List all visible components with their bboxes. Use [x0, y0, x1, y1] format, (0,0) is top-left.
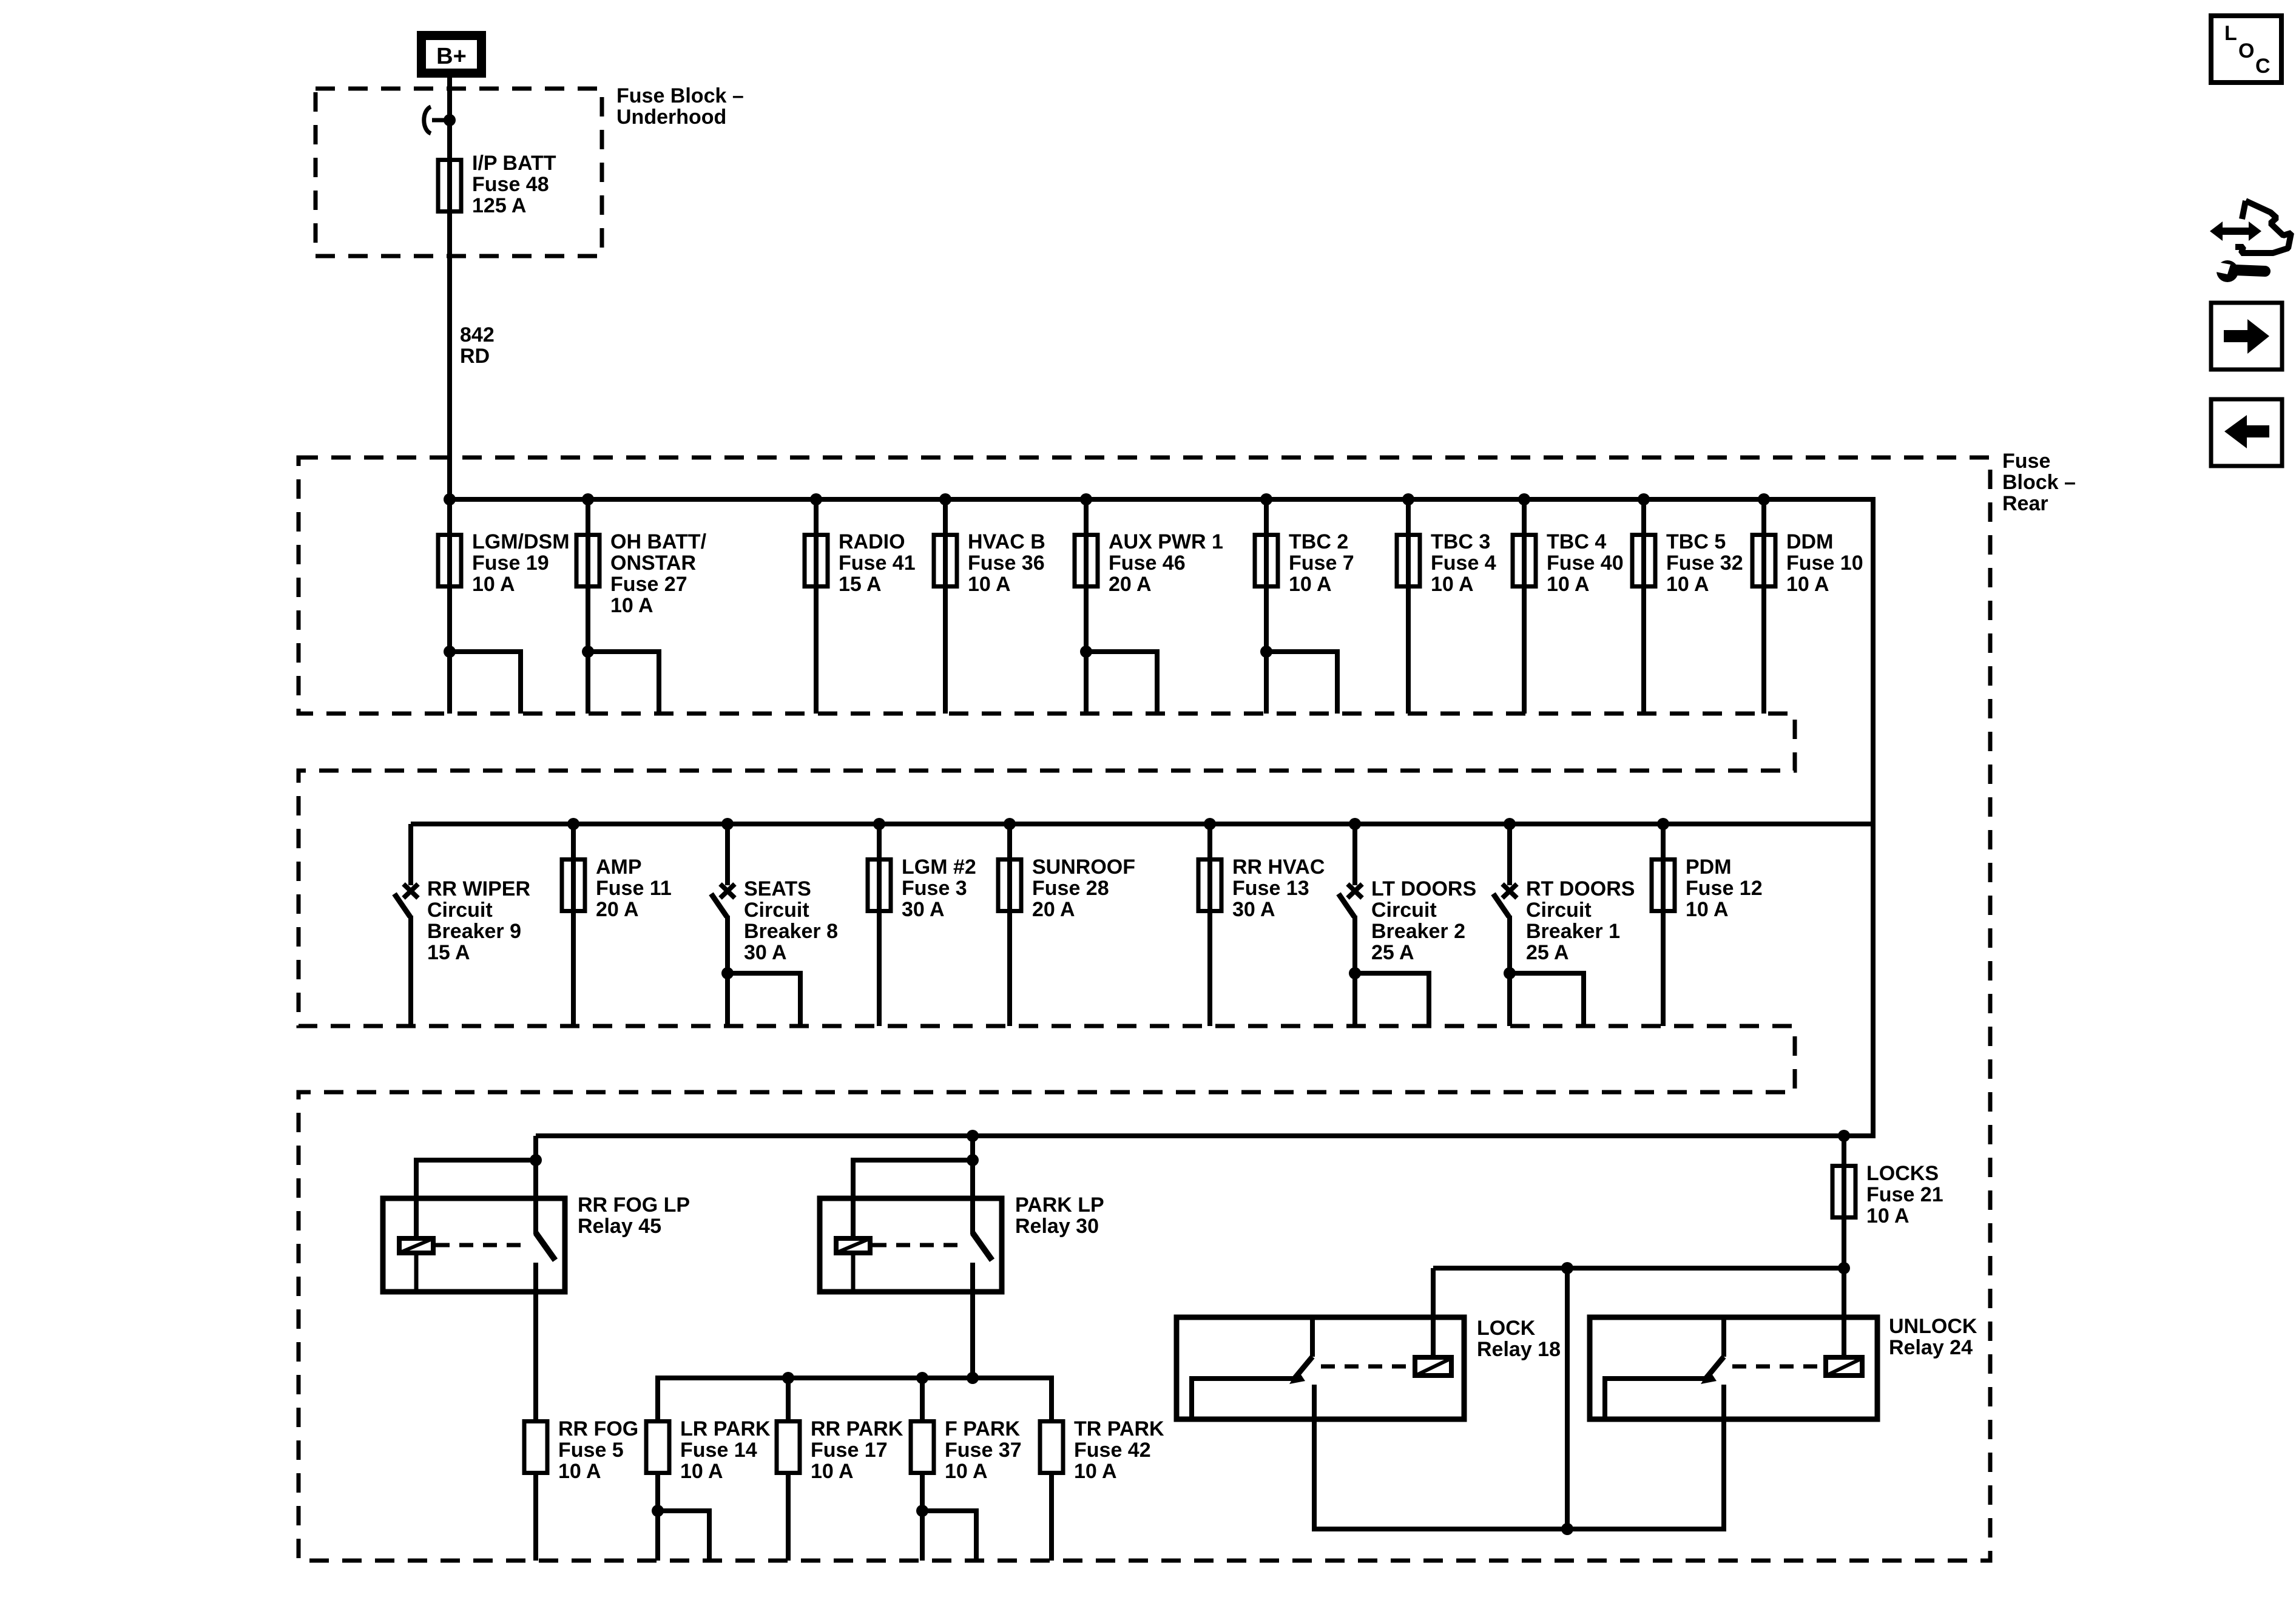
svg-text:Fuse: Fuse: [2002, 450, 2050, 473]
relay RR FOG LP: coil-switch dashed link: [436, 1243, 528, 1247]
park lamp distribution wire: [658, 1378, 1052, 1419]
fuse TR PARK: wire: [1049, 1475, 1054, 1561]
relay RR FOG LP: switch feed wire: [533, 1160, 538, 1234]
fuse HVAC B (Fuse 36 10 A): [934, 535, 957, 587]
junction RR PARK feed: [782, 1372, 794, 1384]
fuse AMP (Fuse 11 20 A): [562, 860, 585, 911]
fuse LGM/DSM: output branch junction: [444, 646, 456, 658]
fuse LR PARK (Fuse 14 10 A): [646, 1422, 669, 1473]
svg-text:RADIO: RADIO: [839, 530, 905, 553]
svg-text:Fuse 27: Fuse 27: [610, 573, 687, 596]
svg-text:L: L: [2224, 22, 2237, 45]
svg-text:Relay 45: Relay 45: [578, 1215, 661, 1238]
fuse LGM/DSM: output branch wire: [450, 652, 521, 714]
fuse AUX PWR 1: wire: [1084, 499, 1089, 714]
relay UNLOCK: coil-switch dashed link: [1732, 1365, 1821, 1369]
svg-text:10 A: 10 A: [1289, 573, 1332, 596]
svg-text:10 A: 10 A: [1547, 573, 1590, 596]
fuse LR PARK: wire: [655, 1475, 660, 1561]
circuit breaker RT DOORS: junction on bus: [1504, 818, 1516, 830]
circuit breaker RT DOORS: output wire: [1507, 916, 1512, 1026]
fuse RADIO: wire: [814, 499, 819, 714]
svg-text:20 A: 20 A: [1109, 573, 1152, 596]
lock relay outputs link wire: [1314, 1385, 1724, 1529]
fuse RADIO (Fuse 41 15 A): [805, 535, 828, 587]
svg-text:RT DOORS: RT DOORS: [1526, 877, 1635, 900]
wire bus down to RR FOG LP relay: [533, 1136, 538, 1160]
svg-text:Fuse 21: Fuse 21: [1866, 1183, 1943, 1206]
relay LOCK: switch fixed contact: [1310, 1317, 1315, 1357]
svg-text:RR WIPER: RR WIPER: [427, 877, 530, 900]
svg-text:Underhood: Underhood: [616, 106, 726, 129]
fuse TBC 2: output branch junction: [1260, 646, 1272, 658]
svg-text:Fuse 13: Fuse 13: [1232, 877, 1309, 900]
circuit breaker SEATS: junction on bus: [721, 818, 734, 830]
svg-text:Fuse 10: Fuse 10: [1786, 552, 1863, 575]
fuse OH BATT/: wire: [586, 499, 590, 714]
svg-text:B+: B+: [436, 44, 467, 69]
lock relays coil feed wire: [1433, 1266, 1844, 1271]
wire to LOCK relay coil: [1431, 1268, 1436, 1355]
fuse F PARK: wire: [920, 1475, 925, 1561]
svg-text:TBC 2: TBC 2: [1289, 530, 1348, 553]
relay UNLOCK: switch fixed contact: [1721, 1317, 1726, 1357]
fuse LGM #2 (Fuse 3 30 A): [868, 860, 891, 911]
svg-text:SEATS: SEATS: [744, 877, 811, 900]
svg-text:Fuse 46: Fuse 46: [1109, 552, 1186, 575]
fuse LOCKS: wire: [1842, 1136, 1846, 1268]
svg-text:I/P BATT: I/P BATT: [472, 152, 556, 175]
junction LOCKS output: [1838, 1262, 1850, 1274]
relay feed bus wire: [536, 1133, 1844, 1138]
fuse LGM/DSM: junction on bus: [444, 493, 456, 505]
svg-text:10 A: 10 A: [1431, 573, 1474, 596]
svg-text:Fuse 42: Fuse 42: [1074, 1439, 1151, 1462]
circuit breaker LT DOORS: output wire: [1352, 916, 1357, 1026]
center link wire: [1565, 1268, 1570, 1529]
circuit breaker LT DOORS: output branch junction: [1349, 967, 1361, 979]
junction LOCKS fuse feed: [1838, 1130, 1850, 1142]
svg-text:20 A: 20 A: [1032, 898, 1075, 921]
svg-text:F PARK: F PARK: [945, 1417, 1020, 1440]
fuse OH BATT/: output branch wire: [588, 652, 659, 714]
svg-text:HVAC B: HVAC B: [968, 530, 1045, 553]
svg-text:RR PARK: RR PARK: [811, 1417, 903, 1440]
fuse PDM: junction on bus: [1657, 818, 1669, 830]
svg-text:Circuit: Circuit: [744, 899, 809, 922]
fuse TBC 3: junction on bus: [1402, 493, 1414, 505]
svg-text:10 A: 10 A: [1786, 573, 1829, 596]
fuse RR HVAC: junction on bus: [1204, 818, 1216, 830]
circuit breaker LT DOORS: junction on bus: [1349, 818, 1361, 830]
circuit breaker LT DOORS blade: [1339, 894, 1354, 917]
svg-text:Breaker 1: Breaker 1: [1526, 920, 1620, 943]
svg-text:20 A: 20 A: [596, 898, 639, 921]
circuit breaker SEATS: output branch wire: [728, 973, 800, 1026]
svg-text:Fuse 12: Fuse 12: [1686, 877, 1763, 900]
circuit breaker RT DOORS: output branch wire: [1510, 973, 1584, 1026]
svg-text:RD: RD: [460, 345, 490, 368]
svg-text:RR FOG LP: RR FOG LP: [578, 1193, 690, 1217]
junction at connector: [444, 114, 456, 126]
circuit breaker SEATS: output wire: [725, 916, 730, 1026]
svg-text:15 A: 15 A: [427, 941, 470, 964]
junction PARK LP relay output: [967, 1372, 979, 1384]
svg-text:Breaker 2: Breaker 2: [1371, 920, 1465, 943]
svg-text:25 A: 25 A: [1526, 941, 1569, 964]
svg-text:Block –: Block –: [2002, 471, 2076, 494]
relay UNLOCK switch blade: [1706, 1357, 1724, 1378]
svg-text:10 A: 10 A: [1866, 1204, 1909, 1227]
fuse TBC 2: wire: [1264, 499, 1269, 714]
svg-text:Fuse 28: Fuse 28: [1032, 877, 1109, 900]
wire bus down to PARK LP relay: [970, 1136, 975, 1160]
svg-text:Relay 24: Relay 24: [1889, 1336, 1973, 1359]
svg-text:10 A: 10 A: [1686, 898, 1729, 921]
svg-text:10 A: 10 A: [945, 1460, 988, 1483]
svg-text:10 A: 10 A: [558, 1460, 601, 1483]
fuse AUX PWR 1 (Fuse 46 20 A): [1075, 535, 1098, 587]
circuit breaker SEATS blade: [711, 894, 727, 917]
relay RR FOG LP: coil branch junction: [530, 1154, 542, 1166]
fuse block underhood dashed box: [316, 89, 602, 256]
relay LOCK: coil-switch dashed link: [1321, 1365, 1410, 1369]
svg-text:Fuse 4: Fuse 4: [1431, 552, 1496, 575]
fuse RR FOG (Fuse 5 10 A): [524, 1422, 547, 1473]
svg-text:Fuse 7: Fuse 7: [1289, 552, 1354, 575]
fuse DDM: junction on bus: [1758, 493, 1770, 505]
service icon wrench: [2217, 260, 2238, 282]
relay PARK LP: coil branch wire: [853, 1160, 973, 1236]
svg-text:25 A: 25 A: [1371, 941, 1414, 964]
svg-text:Fuse 36: Fuse 36: [968, 552, 1045, 575]
relay PARK LP: switch output wire: [970, 1263, 975, 1292]
svg-text:Relay 18: Relay 18: [1477, 1338, 1561, 1361]
svg-text:AUX PWR 1: AUX PWR 1: [1109, 530, 1223, 553]
svg-text:LT DOORS: LT DOORS: [1371, 877, 1476, 900]
svg-text:RR HVAC: RR HVAC: [1232, 856, 1325, 879]
circuit breaker SEATS: feed wire: [725, 824, 730, 885]
forward arrow box: [2211, 303, 2282, 370]
relay RR FOG LP switch blade: [536, 1233, 555, 1260]
circuit breaker LT DOORS contact X: [1348, 884, 1362, 898]
svg-text:LR PARK: LR PARK: [680, 1417, 771, 1440]
back arrow: [2224, 415, 2269, 448]
fuse RR PARK (Fuse 17 10 A): [777, 1422, 800, 1473]
svg-text:10 A: 10 A: [680, 1460, 723, 1483]
svg-text:30 A: 30 A: [1232, 898, 1275, 921]
fuse TBC 3: wire: [1406, 499, 1411, 714]
wire PARK LP relay to park lamp feed line: [970, 1292, 975, 1378]
fuse RR PARK: wire: [786, 1475, 791, 1561]
circuit breaker RT DOORS contact X: [1502, 884, 1517, 898]
svg-text:10 A: 10 A: [1074, 1460, 1117, 1483]
svg-text:Fuse 41: Fuse 41: [839, 552, 916, 575]
relay UNLOCK blade arrow: [1701, 1370, 1717, 1384]
connector at I/P BATT fuse input: [424, 107, 431, 133]
fuse RR FOG: wire: [533, 1475, 538, 1561]
relay LOCK: common wire: [1192, 1379, 1302, 1419]
relay PARK LP: switch feed wire: [970, 1160, 975, 1234]
fuse DDM: wire: [1761, 499, 1766, 714]
relay LOCK switch blade: [1295, 1357, 1312, 1378]
svg-text:Fuse 14: Fuse 14: [680, 1439, 757, 1462]
svg-text:LOCK: LOCK: [1477, 1317, 1536, 1340]
svg-text:10 A: 10 A: [472, 573, 515, 596]
fuse LGM #2: wire: [877, 824, 882, 1026]
svg-text:PARK LP: PARK LP: [1015, 1193, 1104, 1217]
fuse OH BATT/: junction on bus: [582, 493, 594, 505]
svg-text:10 A: 10 A: [1666, 573, 1709, 596]
fuse TBC 5: junction on bus: [1638, 493, 1650, 505]
row1 battery bus wire: [450, 499, 1873, 1136]
wire to UNLOCK relay coil: [1842, 1268, 1846, 1355]
relay PARK LP: coil-switch dashed link: [873, 1243, 965, 1247]
fuse DDM (Fuse 10 10 A): [1752, 535, 1775, 587]
fuse TR PARK (Fuse 42 10 A): [1040, 1422, 1063, 1473]
svg-text:30 A: 30 A: [902, 898, 945, 921]
row2 feed bus wire: [411, 822, 1873, 826]
fuse HVAC B: wire: [943, 499, 948, 714]
service icon outline: [2235, 201, 2291, 253]
back arrow box: [2211, 399, 2282, 466]
LOC reference box: [2211, 16, 2281, 83]
svg-text:10 A: 10 A: [811, 1460, 854, 1483]
fuse TBC 2 (Fuse 7 10 A): [1255, 535, 1278, 587]
svg-text:RR FOG: RR FOG: [558, 1417, 638, 1440]
svg-text:10 A: 10 A: [968, 573, 1011, 596]
relay PARK LP: coil branch junction: [967, 1154, 979, 1166]
fuse HVAC B: junction on bus: [939, 493, 951, 505]
fuse TBC 5: wire: [1641, 499, 1646, 714]
fuse PDM: wire: [1661, 824, 1666, 1026]
svg-text:TBC 4: TBC 4: [1547, 530, 1606, 553]
fuse LR PARK: output branch wire: [658, 1511, 709, 1561]
fuse TBC 3 (Fuse 4 10 A): [1397, 535, 1420, 587]
fuse SUNROOF (Fuse 28 20 A): [998, 860, 1021, 911]
fuse OH BATT/ (ONSTAR Fuse 27): [576, 535, 599, 587]
service icon double arrow: [2210, 221, 2261, 241]
svg-text:30 A: 30 A: [744, 941, 787, 964]
circuit breaker SEATS: output branch junction: [721, 967, 734, 979]
relay RR FOG LP: coil lower stub: [414, 1255, 419, 1292]
fuse TBC 5 (Fuse 32 10 A): [1632, 535, 1655, 587]
relay PARK LP: coil lower stub: [851, 1255, 856, 1292]
fuse LOCKS (Fuse 21 10 A): [1832, 1166, 1855, 1218]
svg-text:Rear: Rear: [2002, 492, 2048, 515]
svg-text:TBC 3: TBC 3: [1431, 530, 1490, 553]
svg-text:OH BATT/: OH BATT/: [610, 530, 707, 553]
circuit breaker RT DOORS blade: [1493, 894, 1509, 917]
svg-text:TR PARK: TR PARK: [1074, 1417, 1164, 1440]
circuit breaker RT DOORS: feed wire: [1507, 824, 1512, 885]
relay LOCK blade arrow: [1289, 1370, 1305, 1384]
fuse AMP: wire: [571, 824, 576, 1026]
svg-text:Circuit: Circuit: [1526, 899, 1592, 922]
svg-text:10 A: 10 A: [610, 594, 653, 617]
relay LOCK coil: [1415, 1357, 1451, 1376]
svg-text:Fuse 11: Fuse 11: [596, 877, 672, 900]
svg-text:Fuse 19: Fuse 19: [472, 552, 549, 575]
relay UNLOCK coil: [1826, 1357, 1862, 1376]
fuse F PARK: output branch junction: [916, 1505, 928, 1517]
fuse AUX PWR 1: junction on bus: [1080, 493, 1092, 505]
fuse RR HVAC: wire: [1207, 824, 1212, 1026]
circuit breaker RR WIPER: feed wire: [408, 824, 413, 885]
circuit breaker RR WIPER blade: [394, 894, 410, 917]
fuse SUNROOF: wire: [1007, 824, 1012, 1026]
relay PARK LP switch blade: [973, 1233, 992, 1260]
fuse LR PARK: output branch junction: [652, 1505, 664, 1517]
junction coil feed / center link: [1561, 1262, 1573, 1274]
svg-text:842: 842: [460, 323, 495, 346]
fuse TBC 4: junction on bus: [1518, 493, 1530, 505]
svg-text:Fuse 37: Fuse 37: [945, 1439, 1022, 1462]
circuit breaker LT DOORS: feed wire: [1352, 824, 1357, 885]
fuse AMP: junction on bus: [567, 818, 579, 830]
fuse TBC 2: output branch wire: [1266, 652, 1337, 714]
relay UNLOCK box: [1590, 1317, 1877, 1419]
forward arrow: [2224, 319, 2269, 354]
relay RR FOG LP coil: [399, 1238, 433, 1253]
svg-text:AMP: AMP: [596, 856, 642, 879]
circuit breaker LT DOORS: output branch wire: [1355, 973, 1429, 1026]
relay RR FOG LP: coil branch wire: [416, 1160, 536, 1236]
wire B+ to fuse block rear bus: [447, 78, 452, 499]
svg-text:ONSTAR: ONSTAR: [610, 552, 696, 575]
relay PARK LP box: [820, 1198, 1002, 1292]
svg-text:Fuse Block –: Fuse Block –: [616, 84, 744, 107]
fuse F PARK (Fuse 37 10 A): [911, 1422, 934, 1473]
svg-text:Fuse 17: Fuse 17: [811, 1439, 888, 1462]
svg-text:15 A: 15 A: [839, 573, 882, 596]
relay LOCK box: [1177, 1317, 1464, 1419]
svg-text:PDM: PDM: [1686, 856, 1732, 879]
relay RR FOG LP box: [383, 1198, 565, 1292]
B+ battery terminal box: [422, 36, 482, 73]
svg-text:O: O: [2238, 39, 2254, 62]
relay UNLOCK: common wire: [1605, 1379, 1714, 1419]
svg-text:DDM: DDM: [1786, 530, 1833, 553]
circuit breaker SEATS contact X: [720, 884, 735, 898]
svg-text:C: C: [2255, 55, 2271, 78]
fuse LGM/DSM: wire: [447, 499, 452, 714]
svg-text:Fuse 3: Fuse 3: [902, 877, 967, 900]
fuse RR HVAC (Fuse 13 30 A): [1198, 860, 1221, 911]
fuse SUNROOF: junction on bus: [1004, 818, 1016, 830]
junction center link to outputs: [1561, 1523, 1573, 1535]
fuse PDM (Fuse 12 10 A): [1652, 860, 1675, 911]
svg-text:LGM/DSM: LGM/DSM: [472, 530, 570, 553]
svg-text:LGM #2: LGM #2: [902, 856, 976, 879]
wire to RR PARK fuse: [786, 1378, 791, 1419]
fuse RADIO: junction on bus: [810, 493, 822, 505]
junction PARK LP feed on bus: [967, 1130, 979, 1142]
svg-text:Fuse 48: Fuse 48: [472, 173, 549, 196]
svg-text:Breaker 8: Breaker 8: [744, 920, 838, 943]
svg-text:Breaker 9: Breaker 9: [427, 920, 521, 943]
fuse block rear dashed outline: [299, 457, 1990, 1561]
fuse OH BATT/: output branch junction: [582, 646, 594, 658]
fuse TBC 2: junction on bus: [1260, 493, 1272, 505]
wire RR FOG LP relay to RR FOG fuse: [533, 1292, 538, 1419]
circuit breaker RT DOORS: output branch junction: [1504, 967, 1516, 979]
wire to F PARK fuse: [920, 1378, 925, 1419]
fuse LGM #2: junction on bus: [873, 818, 885, 830]
fuse F PARK: output branch wire: [922, 1511, 976, 1561]
circuit breaker RR WIPER: output wire: [408, 916, 413, 1026]
svg-text:UNLOCK: UNLOCK: [1889, 1315, 1977, 1338]
svg-text:SUNROOF: SUNROOF: [1032, 856, 1135, 879]
fuse I/P BATT (Fuse 48 125 A): [438, 160, 461, 212]
relay RR FOG LP: switch output wire: [533, 1263, 538, 1292]
svg-text:Circuit: Circuit: [1371, 899, 1437, 922]
svg-text:Fuse 32: Fuse 32: [1666, 552, 1743, 575]
fuse LGM/DSM (Fuse 19 10 A): [438, 535, 461, 587]
relay PARK LP coil: [836, 1238, 870, 1253]
circuit breaker RR WIPER contact X: [403, 884, 418, 898]
svg-text:LOCKS: LOCKS: [1866, 1162, 1939, 1185]
svg-text:125 A: 125 A: [472, 194, 526, 217]
svg-text:TBC 5: TBC 5: [1666, 530, 1726, 553]
svg-text:Circuit: Circuit: [427, 899, 493, 922]
junction F PARK feed: [916, 1372, 928, 1384]
fuse AUX PWR 1: output branch wire: [1086, 652, 1157, 714]
fuse AUX PWR 1: output branch junction: [1080, 646, 1092, 658]
svg-text:Fuse 40: Fuse 40: [1547, 552, 1624, 575]
svg-text:Relay 30: Relay 30: [1015, 1215, 1099, 1238]
svg-text:Fuse 5: Fuse 5: [558, 1439, 624, 1462]
fuse TBC 4 (Fuse 40 10 A): [1513, 535, 1536, 587]
fuse TBC 4: wire: [1522, 499, 1527, 714]
